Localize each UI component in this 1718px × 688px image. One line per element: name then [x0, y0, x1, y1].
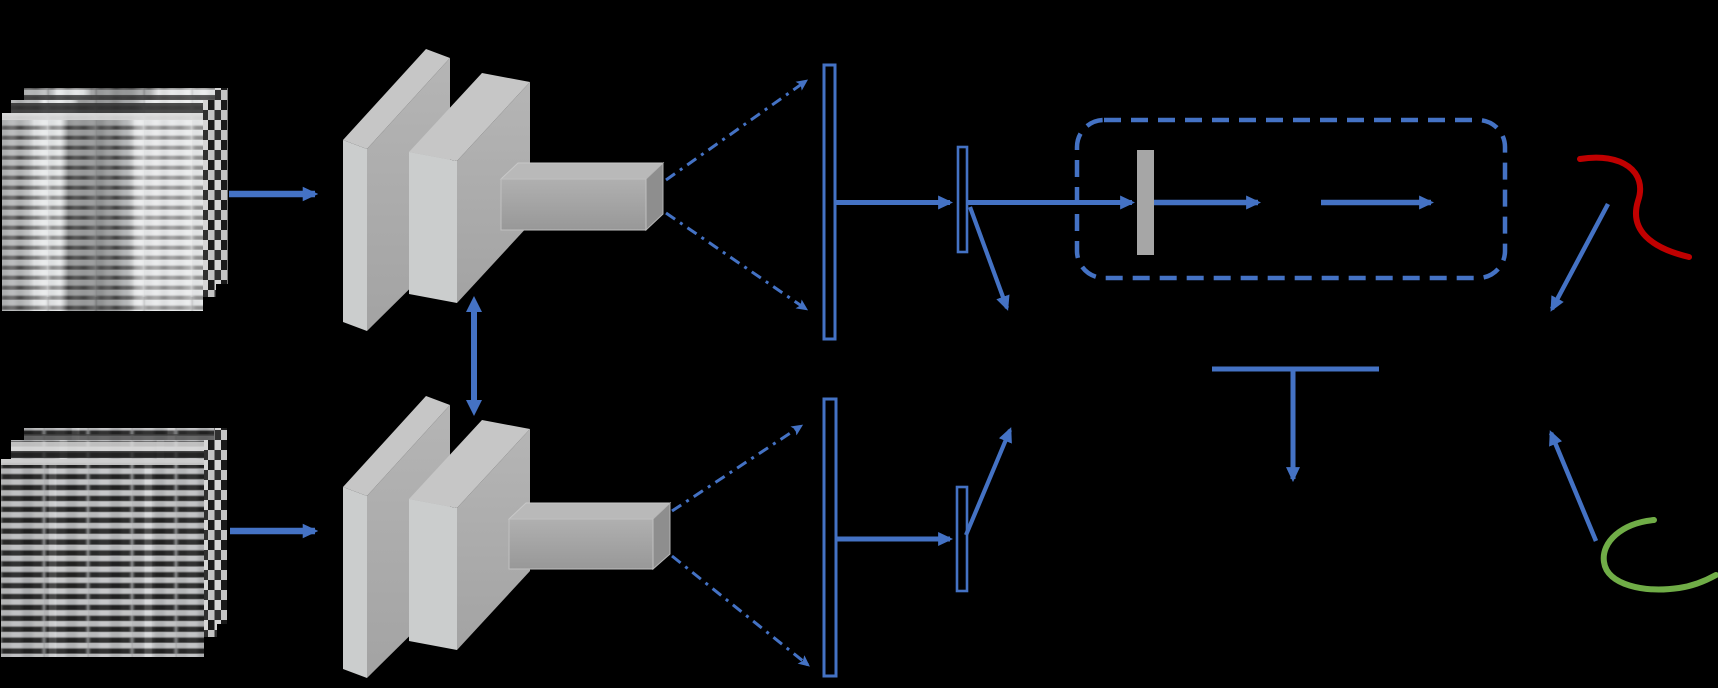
arrow from red curve to score — [1552, 204, 1608, 309]
arrow from green curve to score — [1551, 433, 1596, 541]
slab 1 — [343, 396, 450, 678]
diagonal arrow down to scoring — [970, 207, 1007, 308]
back image — [24, 428, 227, 624]
embedding bar bottom — [957, 487, 967, 591]
arrow inside 1 — [1154, 200, 1258, 206]
slab 1 — [343, 49, 450, 331]
red S curve — [1580, 158, 1689, 257]
tall FC rect bottom — [824, 399, 836, 676]
middle image — [11, 100, 216, 297]
feature box — [509, 503, 670, 569]
green loop curve — [1604, 520, 1716, 589]
top input arrow — [229, 191, 315, 198]
dash-dot flatten wire top upper — [666, 81, 806, 180]
gray bar inside — [1137, 150, 1154, 255]
dash-dot flatten wire bottom upper — [672, 426, 801, 511]
horizontal wire under module — [1212, 367, 1379, 372]
slab 2 — [409, 73, 530, 303]
diagonal arrow up to scoring — [966, 430, 1010, 535]
tall FC rect top — [824, 65, 835, 339]
embedding bar top — [958, 147, 967, 252]
bottom input arrow — [230, 528, 315, 535]
middle image — [11, 440, 217, 637]
dash-dot flatten wire top lower — [666, 213, 806, 309]
line into dashed module — [968, 200, 1132, 205]
front image — [1, 459, 204, 657]
weight sharing double arrow — [466, 296, 482, 416]
feature box — [501, 163, 663, 230]
down arrow from module wire — [1291, 369, 1296, 479]
dash-dot flatten wire bottom lower — [672, 556, 808, 665]
front image — [2, 113, 203, 311]
arrow inside 2 — [1321, 200, 1431, 206]
arrow to embedding bar top — [836, 200, 950, 205]
slab 2 — [409, 420, 530, 650]
arrow to embedding bar bottom — [837, 537, 950, 542]
back image — [24, 88, 228, 284]
